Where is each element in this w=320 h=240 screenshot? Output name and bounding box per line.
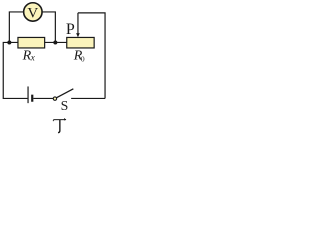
wire: bottom row right segment bbox=[71, 97, 105, 99]
wiper arrow stem of R0 bbox=[77, 13, 79, 33]
resistor Rx bbox=[18, 37, 45, 48]
node: junction dot left of Rx bbox=[7, 40, 11, 44]
wire: voltmeter branch left vertical + top row left bbox=[9, 12, 23, 43]
battery short plate bbox=[31, 95, 33, 102]
wire: top row right + voltmeter branch right vertical bbox=[42, 12, 55, 43]
wiper arrowhead bbox=[76, 33, 80, 37]
switch S blade bbox=[56, 89, 73, 98]
wire: wiper top horizontal + right loop vertical bbox=[78, 13, 105, 99]
wire: middle row between Rx and R0 bbox=[45, 41, 67, 43]
node: junction dot right of Rx bbox=[53, 40, 57, 44]
svg-text:V: V bbox=[27, 5, 38, 21]
svg-text:x: x bbox=[30, 52, 35, 62]
caption glyph ding (option marker) bbox=[53, 118, 66, 133]
wire: left loop (middle row left, left vertical, bottom left) bbox=[3, 42, 27, 98]
svg-text:S: S bbox=[61, 98, 69, 113]
voltmeter U1 circle bbox=[24, 3, 42, 21]
battery long plate bbox=[27, 86, 29, 103]
switch S pivot bbox=[53, 97, 56, 100]
wire: bottom row battery to switch bbox=[33, 97, 53, 99]
svg-text:0: 0 bbox=[81, 55, 85, 64]
svg-text:P: P bbox=[66, 21, 75, 38]
rheostat R0 body bbox=[67, 37, 94, 48]
